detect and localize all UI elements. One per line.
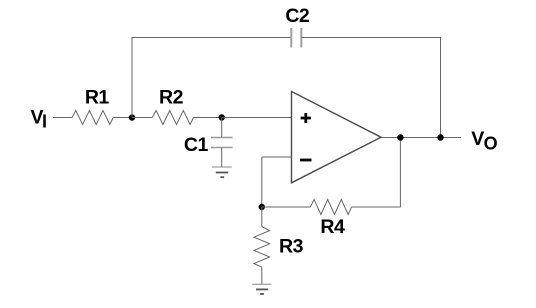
wire C2 right branch (across and down to output) xyxy=(301,38,440,138)
wire C1 to ground xyxy=(221,148,223,168)
resistor R2 xyxy=(152,111,193,125)
label VO xyxy=(471,128,497,154)
op-amp plus symbol xyxy=(301,113,311,123)
wire node C down to R3 xyxy=(261,207,263,227)
resistor R4 xyxy=(310,200,351,215)
wire node B down to C1 xyxy=(221,118,223,138)
node D junction dot (output/R4 feedback) xyxy=(397,134,403,140)
wire R1 to node A xyxy=(113,117,132,119)
svg-text:I: I xyxy=(42,112,47,132)
input wire VI to R1 xyxy=(53,117,72,119)
svg-text:V: V xyxy=(471,128,484,150)
node E junction dot (output/C2) xyxy=(437,134,443,140)
svg-text:R3: R3 xyxy=(279,236,304,258)
svg-text:R4: R4 xyxy=(320,216,345,238)
svg-text:R2: R2 xyxy=(159,87,184,109)
wire R2 to node B xyxy=(194,117,222,119)
capacitor C2 xyxy=(291,28,301,48)
svg-text:R1: R1 xyxy=(85,87,110,109)
wire minus input down to node C xyxy=(261,157,263,207)
resistor R1 xyxy=(72,111,113,125)
ground (R3) xyxy=(252,284,271,294)
wire op-amp output xyxy=(381,137,461,139)
capacitor C1 xyxy=(211,138,233,148)
ground (C1) xyxy=(212,167,232,177)
wire node B to op-amp plus input xyxy=(222,117,292,119)
wire op-amp minus input xyxy=(262,156,292,158)
wire R3 to ground xyxy=(261,267,263,284)
op-amp U1 triangle xyxy=(292,92,382,183)
wire node A to R2 xyxy=(132,117,152,119)
svg-text:C1: C1 xyxy=(184,134,209,156)
label VI xyxy=(31,106,48,131)
svg-text:C2: C2 xyxy=(285,5,310,27)
node A junction dot (R1/R2/C2) xyxy=(129,114,135,120)
resistor R3 xyxy=(254,227,270,268)
wire node C to R4 xyxy=(262,206,311,208)
node B junction dot (R2/C1/op-amp) xyxy=(219,114,225,120)
wire C2 left branch (node A up and across) xyxy=(132,38,291,118)
svg-text:O: O xyxy=(484,134,498,154)
op-amp minus symbol xyxy=(300,159,312,162)
node C junction dot (R3/R4/minus) xyxy=(259,204,265,210)
wire R4 up to output node xyxy=(352,138,401,208)
